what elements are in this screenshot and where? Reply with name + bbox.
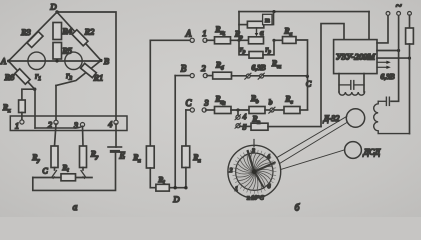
label Rsh	[271, 59, 281, 70]
upper rung resistor	[239, 13, 274, 28]
svg-text:3: 3	[73, 121, 78, 130]
svg-text:C: C	[306, 80, 312, 89]
caption a	[73, 203, 78, 213]
AC terminal 3	[408, 12, 412, 29]
wire R1 branch down to terminal 2	[55, 86, 57, 121]
resistor R2	[72, 27, 95, 46]
resistor Rp2	[240, 115, 268, 131]
resistor R6	[4, 61, 35, 89]
wire Ra to C riser	[296, 40, 308, 110]
wire stub to AC terminal 1	[377, 15, 388, 43]
svg-text:т: т	[265, 17, 270, 24]
wire bridge arm D-B	[57, 12, 101, 61]
svg-text:~: ~	[396, 0, 402, 12]
amplifier bottom wire left	[338, 74, 340, 92]
svg-text:C: C	[42, 167, 48, 176]
svg-text:A: A	[185, 29, 192, 39]
jack pair 6.3V	[245, 63, 266, 79]
resistor Rt circuit b	[156, 175, 169, 191]
track wire	[33, 177, 92, 179]
node D	[49, 2, 58, 14]
top line drop to amplifier	[368, 12, 370, 40]
svg-text:1: 1	[202, 28, 206, 38]
top line to amplifier	[239, 11, 369, 13]
wire	[231, 109, 249, 111]
amplifier bottom wire right	[363, 74, 365, 92]
wire terminal 3 down	[82, 126, 85, 146]
svg-text:D: D	[49, 2, 57, 12]
wire term2 down to capacitor	[391, 51, 399, 102]
motor D-32	[323, 109, 365, 127]
wire stub terminal 2	[377, 50, 399, 52]
wire bridge arm D-A	[9, 12, 58, 61]
node D bottom	[172, 186, 187, 204]
pointer line 3	[281, 150, 345, 170]
interior wire to terminal 3	[35, 126, 82, 128]
vertical line B down to D	[174, 76, 176, 188]
Rp ladder left leg	[238, 12, 240, 41]
junction node under R6	[33, 88, 36, 91]
junction dot	[397, 49, 400, 52]
galvanometer r1	[28, 52, 45, 82]
selector dial inner disc	[236, 153, 273, 190]
dial pointer hands	[248, 151, 275, 188]
svg-text:A: A	[0, 56, 7, 66]
svg-text:6,3В: 6,3В	[381, 72, 395, 81]
terminal B jack pair 2	[181, 63, 208, 78]
amplifier UZU-209M	[334, 40, 377, 74]
resistor R1	[56, 61, 103, 86]
wire loop right side	[409, 58, 411, 134]
svg-text:4: 4	[267, 154, 270, 161]
svg-text:R1: R1	[93, 73, 103, 83]
junction dot right Rp	[272, 39, 275, 42]
node A	[0, 56, 10, 66]
svg-text:R4: R4	[62, 26, 73, 36]
vertical line A down	[149, 40, 151, 146]
wire stub terminal 3	[377, 57, 410, 59]
svg-text:4: 4	[108, 120, 112, 129]
svg-text:1: 1	[15, 122, 19, 131]
wire Rp2 to riser	[268, 126, 321, 128]
wire line B to node C	[232, 75, 308, 77]
wire	[207, 39, 215, 41]
motor winding coil	[374, 101, 410, 133]
svg-text:Д-32: Д-32	[323, 114, 340, 123]
svg-text:R5: R5	[62, 46, 72, 56]
lower rung resistor rp	[239, 40, 274, 58]
resistor R3	[20, 27, 43, 47]
wire Rc to riser	[300, 109, 308, 111]
junction dot bridge centre	[55, 59, 58, 62]
motor DSD	[345, 142, 381, 159]
dial spokes	[236, 153, 273, 190]
dial index mark	[253, 140, 255, 147]
vertical line C down	[185, 110, 187, 146]
node C	[306, 75, 312, 89]
resistor Rb line B	[207, 61, 232, 80]
pointer line 2	[279, 122, 347, 163]
resistor Rk	[2, 100, 25, 120]
node B	[99, 56, 109, 66]
terminals 4 and 5	[235, 110, 247, 132]
svg-text:R3: R3	[20, 27, 30, 37]
svg-text:E: E	[119, 151, 126, 161]
output arrow 2	[377, 66, 395, 81]
terminal 1	[15, 120, 24, 131]
resistor Ry right	[80, 146, 99, 168]
resistor Rl left	[132, 146, 154, 188]
wire line A left	[150, 39, 190, 41]
return wire to battery	[33, 152, 116, 190]
resistor Rb2 line C	[249, 94, 265, 114]
svg-text:R6: R6	[4, 72, 15, 82]
svg-text:B: B	[104, 56, 109, 66]
wire line C left	[186, 109, 191, 111]
bottom rail	[150, 187, 186, 189]
terminal 4	[108, 120, 118, 129]
junction dot top line	[272, 10, 275, 13]
resistor R5	[53, 43, 72, 60]
wire line B left	[175, 75, 190, 77]
wire terminal 2 down	[55, 124, 57, 146]
svg-text:1: 1	[235, 187, 238, 193]
capacitor right vertical plates	[378, 97, 389, 105]
junction dot left Rp	[237, 39, 240, 42]
galvanometer r2	[65, 52, 82, 81]
output arrow 1	[377, 61, 391, 64]
svg-text:R2: R2	[84, 27, 95, 37]
terminal 2	[48, 120, 58, 129]
terminal C jack pair 3	[185, 98, 208, 113]
svg-text:2: 2	[230, 168, 233, 174]
svg-text:6: 6	[268, 184, 271, 190]
caption b	[295, 203, 301, 214]
riser wire to amplifier	[321, 24, 344, 127]
svg-text:3: 3	[203, 98, 208, 108]
resistor Ra	[274, 27, 296, 44]
svg-text:ДСД: ДСД	[363, 147, 381, 157]
resistor Rl right	[182, 146, 201, 188]
resistor Rp	[234, 30, 264, 44]
svg-text:D: D	[172, 194, 180, 204]
slider arrow C	[42, 167, 56, 180]
resistor R4	[53, 23, 73, 40]
svg-text:2: 2	[48, 121, 52, 130]
svg-text:x 10°C: x 10°C	[246, 195, 265, 202]
AC terminal 2 wire	[398, 15, 400, 50]
dial scale ticks	[233, 150, 277, 194]
terminal 3	[73, 121, 85, 130]
resistor Rt circuit a	[61, 163, 76, 181]
svg-text:а: а	[260, 28, 264, 37]
resistor Rc	[275, 95, 301, 114]
AC terminal 2	[396, 0, 402, 15]
svg-text:6,3В: 6,3В	[252, 63, 266, 72]
terminal box a	[10, 116, 127, 131]
junction dot branch 45	[236, 108, 239, 111]
svg-text:4: 4	[243, 112, 247, 121]
wire D to top-right corner down to terminal 4	[57, 12, 116, 120]
resistor on AC line	[406, 28, 414, 58]
svg-text:b: b	[269, 98, 273, 107]
slider arrow a	[255, 28, 264, 37]
battery E	[108, 124, 126, 161]
resistor Rk2	[206, 95, 231, 114]
wire junction to Rk	[22, 89, 35, 100]
AC terminal 1	[386, 12, 390, 16]
svg-text:3: 3	[251, 149, 255, 155]
jack b	[265, 98, 275, 114]
svg-text:B: B	[181, 64, 187, 74]
svg-text:а: а	[73, 203, 78, 213]
wire R6 junction down into box	[34, 89, 36, 128]
slider arrow right	[81, 168, 86, 180]
dial numerals	[230, 149, 271, 202]
coupling capacitor	[339, 81, 364, 90]
svg-text:УЗУ-209М: УЗУ-209М	[336, 53, 376, 62]
resistor Ry left	[31, 146, 58, 168]
resistor Rk1	[215, 25, 231, 44]
selector dial outer ring	[228, 145, 281, 198]
wire to Rp network	[231, 39, 249, 41]
pointer line 1	[278, 116, 347, 157]
svg-text:C: C	[185, 98, 192, 108]
transformer coil	[339, 92, 365, 95]
junction dot	[408, 57, 411, 60]
terminal A jack pair 1	[185, 28, 207, 42]
thermometer contact box T	[263, 14, 272, 24]
wire A-B horizontal	[9, 60, 102, 62]
